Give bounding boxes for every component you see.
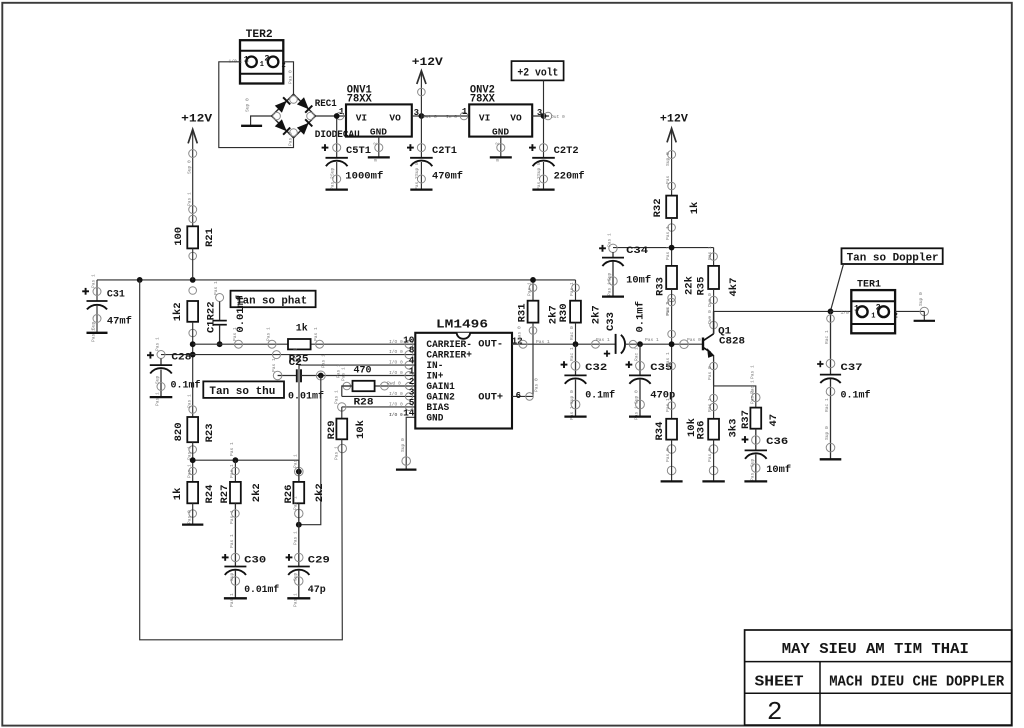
svg-text:2k7: 2k7 — [591, 305, 603, 324]
capacitor C2T2 220mf — [529, 116, 585, 190]
svg-text:+12V: +12V — [181, 114, 212, 126]
capacitor C34 10mf — [599, 233, 651, 297]
svg-text:Pas 1: Pas 1 — [527, 282, 533, 296]
regulator ONV2 78XX — [469, 84, 542, 137]
svg-text:10k: 10k — [355, 420, 367, 439]
capacitor C36 10mf — [742, 429, 792, 482]
svg-text:+2 volt: +2 volt — [517, 67, 558, 79]
svg-text:Pas 1: Pas 1 — [292, 531, 298, 545]
svg-text:2: 2 — [495, 142, 501, 145]
svg-text:470mf: 470mf — [432, 171, 463, 183]
svg-text:m: m — [496, 159, 499, 164]
resistor R36 3k3 — [686, 418, 739, 481]
svg-text:1: 1 — [260, 61, 264, 69]
svg-text:470: 470 — [354, 365, 372, 377]
capacitor C30 0.01mf — [222, 553, 279, 607]
svg-text:GAIN1: GAIN1 — [426, 382, 455, 393]
svg-text:Pas 1: Pas 1 — [229, 442, 235, 456]
svg-text:47: 47 — [768, 414, 780, 427]
svg-text:100: 100 — [173, 227, 185, 246]
svg-text:3k3: 3k3 — [727, 419, 739, 438]
svg-text:GND: GND — [426, 414, 443, 425]
svg-text:C29: C29 — [308, 555, 330, 567]
svg-text:Pas 1: Pas 1 — [634, 406, 640, 420]
wire collector to TER1 node — [707, 289, 830, 334]
svg-text:2: 2 — [409, 376, 415, 387]
svg-text:Owe 0: Owe 0 — [707, 293, 713, 307]
wire R27 to C30 — [229, 503, 239, 566]
svg-text:Sup 0: Sup 0 — [414, 162, 420, 176]
svg-text:0.1mf: 0.1mf — [634, 301, 646, 333]
svg-text:3: 3 — [409, 387, 415, 398]
svg-text:14: 14 — [403, 407, 415, 418]
title block — [745, 630, 1012, 727]
ground at LM1496 pin14 — [389, 412, 416, 470]
node R26 bottom junction — [292, 503, 301, 566]
op-amp U1 LM1496 — [415, 319, 512, 429]
capacitor C1 0.01mf — [213, 281, 248, 347]
svg-text:0.1mf: 0.1mf — [585, 390, 615, 402]
svg-text:220mf: 220mf — [554, 171, 585, 183]
resistor R25 1k — [288, 323, 311, 366]
svg-text:Sup 0: Sup 0 — [245, 98, 251, 112]
power +12V arrow (ONV1 output) — [412, 57, 443, 116]
svg-text:Pas 1: Pas 1 — [536, 339, 550, 345]
wire TER2 pin1 to bridge bottom — [219, 62, 294, 148]
resistor R33 22k — [655, 266, 696, 315]
svg-text:1: 1 — [244, 54, 249, 64]
svg-text:Pas 0: Pas 0 — [687, 337, 701, 343]
svg-text:MAY SIEU AM TIM THAI: MAY SIEU AM TIM THAI — [782, 641, 969, 658]
svg-text:Pas 1: Pas 1 — [607, 282, 613, 296]
svg-text:I/O 0: I/O 0 — [389, 391, 403, 397]
svg-text:Pas: Pas — [749, 472, 755, 481]
svg-text:Pas 1: Pas 1 — [266, 327, 272, 341]
svg-text:Pas 2: Pas 2 — [330, 176, 336, 190]
svg-text:R37: R37 — [740, 410, 752, 429]
svg-text:Pas 1: Pas 1 — [596, 337, 610, 343]
svg-text:Sup 0: Sup 0 — [186, 160, 192, 174]
node TER1 junction — [828, 309, 834, 315]
svg-text:OUT-: OUT- — [478, 339, 503, 350]
node R22/wire2 junction — [190, 352, 196, 358]
svg-text:GAIN2: GAIN2 — [426, 393, 455, 404]
ground at ONV2 GND pin — [490, 137, 512, 164]
svg-text:Pas 1: Pas 1 — [335, 364, 341, 378]
capacitor C31 47mf — [82, 274, 132, 342]
svg-text:Pas 1: Pas 1 — [229, 593, 235, 607]
transistor Q1 C828 — [703, 310, 745, 386]
capacitor C37 0.1mf — [817, 311, 870, 459]
wire R31 bottom to out+ (pin6) — [512, 323, 540, 402]
wire bridge to ONV1 VI — [316, 112, 347, 120]
power +12V arrow (R32 top) — [660, 114, 688, 196]
svg-text:2: 2 — [373, 142, 379, 145]
svg-text:OUT+: OUT+ — [478, 393, 503, 404]
svg-text:TER2: TER2 — [246, 29, 273, 41]
capacitor C28 0.1mf — [147, 337, 201, 406]
capacitor C29 47p — [286, 553, 330, 607]
svg-text:C31: C31 — [107, 289, 125, 301]
svg-text:Pas 1: Pas 1 — [707, 398, 713, 412]
svg-text:R32: R32 — [652, 198, 664, 217]
svg-text:1k2: 1k2 — [172, 302, 184, 321]
svg-text:R23: R23 — [204, 423, 216, 442]
svg-text:Pas 1: Pas 1 — [232, 327, 238, 341]
label box Tan so phat — [231, 291, 316, 308]
svg-text:Sup: Sup — [749, 458, 755, 467]
svg-text:Pas 1: Pas 1 — [91, 328, 97, 342]
svg-text:C2T2: C2T2 — [554, 145, 579, 157]
svg-text:Rac 0: Rac 0 — [569, 326, 575, 340]
svg-text:2: 2 — [264, 53, 269, 63]
svg-text:1k: 1k — [296, 323, 308, 335]
power +12V arrow (R21 top) — [181, 114, 212, 227]
svg-text:47p: 47p — [308, 584, 326, 596]
svg-text:C30: C30 — [244, 555, 266, 567]
svg-text:C5T1: C5T1 — [346, 145, 371, 157]
svg-text:Pas 1: Pas 1 — [665, 246, 671, 260]
svg-text:Owe 0: Owe 0 — [707, 310, 713, 324]
svg-text:1: 1 — [871, 312, 875, 320]
capacitor C2T1 470mf — [407, 116, 463, 190]
svg-text:I/O 0: I/O 0 — [389, 349, 403, 355]
svg-text:10: 10 — [403, 334, 415, 345]
svg-text:Pas 1: Pas 1 — [321, 354, 327, 368]
svg-text:10mf: 10mf — [626, 275, 651, 287]
svg-text:m: m — [374, 159, 377, 164]
svg-text:CARRIER+: CARRIER+ — [426, 351, 472, 362]
svg-text:REC1: REC1 — [315, 98, 337, 110]
svg-text:2: 2 — [282, 62, 286, 70]
svg-text:820: 820 — [173, 422, 185, 441]
svg-text:LM1496: LM1496 — [436, 319, 488, 332]
svg-text:R33: R33 — [655, 277, 667, 296]
svg-text:2: 2 — [876, 302, 881, 312]
svg-text:VO: VO — [510, 113, 522, 124]
svg-text:BIAS: BIAS — [426, 403, 449, 414]
svg-text:C36: C36 — [766, 436, 788, 448]
svg-text:Pas 1: Pas 1 — [749, 365, 755, 379]
svg-text:C2: C2 — [289, 357, 302, 369]
svg-text:Pas 1: Pas 1 — [569, 406, 575, 420]
svg-text:IN+: IN+ — [426, 372, 443, 383]
svg-text:GND: GND — [370, 127, 387, 138]
capacitor C5T1 1000mf — [322, 113, 384, 190]
svg-text:VI: VI — [479, 113, 490, 124]
svg-text:4k7: 4k7 — [728, 278, 740, 297]
svg-text:R34: R34 — [654, 422, 666, 441]
wire R32 to R33 with C34 tap — [613, 218, 714, 266]
svg-text:Out 0: Out 0 — [551, 114, 565, 120]
svg-text:Pas 1: Pas 1 — [292, 454, 298, 468]
svg-text:I/O 0: I/O 0 — [389, 412, 403, 418]
svg-text:C2T1: C2T1 — [432, 145, 457, 157]
node C2/IN+ junction — [316, 354, 413, 380]
svg-text:Sup 0: Sup 0 — [634, 390, 640, 404]
svg-text:Out 0: Out 0 — [423, 114, 437, 120]
wire +12V node to ONV2 VI — [421, 107, 469, 120]
resistor R37 47 — [740, 390, 780, 429]
wire carrier+ (pin8) run — [161, 349, 415, 358]
svg-text:+12V: +12V — [412, 57, 443, 69]
wire ONV2 VO to +2volt node — [532, 112, 565, 120]
svg-text:C1R22: C1R22 — [205, 301, 217, 333]
svg-text:Sup 0: Sup 0 — [665, 152, 671, 166]
svg-text:Pas 2: Pas 2 — [536, 176, 542, 190]
svg-text:Pas 1: Pas 1 — [334, 446, 340, 460]
svg-text:VO: VO — [389, 113, 401, 124]
svg-text:1: 1 — [462, 107, 468, 117]
svg-text:Pas 1: Pas 1 — [91, 274, 97, 288]
svg-text:Pas 1: Pas 1 — [334, 390, 340, 404]
svg-text:Sup 0: Sup 0 — [569, 390, 575, 404]
svg-text:6: 6 — [516, 391, 521, 401]
svg-text:Sup 0: Sup 0 — [400, 438, 406, 452]
svg-text:1: 1 — [409, 366, 415, 377]
svg-text:I/O 0: I/O 0 — [389, 370, 403, 376]
wire R33 bottom to base node — [665, 289, 675, 419]
svg-text:Pas 1: Pas 1 — [229, 464, 235, 478]
svg-text:Pas 1: Pas 1 — [229, 510, 235, 524]
svg-text:47mf: 47mf — [107, 315, 132, 327]
resistor R35 4k7 — [696, 246, 740, 297]
resistor R21 100 — [173, 215, 216, 260]
svg-text:MACH DIEU CHE DOPPLER: MACH DIEU CHE DOPPLER — [829, 674, 1004, 691]
svg-text:Pas 0: Pas 0 — [288, 70, 294, 84]
capacitor C35 470p — [626, 341, 676, 420]
svg-text:R36: R36 — [695, 421, 707, 440]
svg-text:VI: VI — [356, 113, 367, 124]
resistor R26 2k2 — [283, 460, 326, 518]
resistor R23 820 — [173, 394, 216, 460]
wire emitter to R37 — [714, 365, 760, 408]
wire IN- column to R26 — [292, 454, 303, 482]
svg-text:1k: 1k — [689, 202, 701, 215]
svg-text:R30: R30 — [558, 303, 570, 322]
svg-text:Sup 0: Sup 0 — [536, 162, 542, 176]
label +2 volt — [512, 61, 564, 116]
svg-text:GND: GND — [492, 127, 509, 138]
svg-text:Pas 1: Pas 1 — [665, 302, 671, 316]
svg-text:IN-: IN- — [426, 361, 443, 372]
wire emitter node to R36 — [707, 386, 717, 419]
svg-text:Sup: Sup — [607, 272, 613, 281]
wire ONV1 VO to +12V node — [412, 113, 457, 120]
svg-text:Pas 1: Pas 1 — [749, 390, 755, 404]
svg-text:8: 8 — [409, 345, 415, 356]
resistor R29 10k — [326, 419, 367, 460]
svg-text:Sup 0: Sup 0 — [824, 426, 830, 440]
svg-text:Pas 1: Pas 1 — [155, 392, 161, 406]
svg-text:2: 2 — [767, 697, 783, 727]
wire carrier (pin10) run — [193, 327, 416, 348]
svg-text:Pas 1: Pas 1 — [665, 226, 671, 240]
capacitor C33 0.1mf (coupling) — [596, 301, 703, 357]
ground at ONV1 GND pin — [368, 137, 390, 164]
svg-text:C28: C28 — [171, 351, 191, 363]
svg-text:Rwd 0: Rwd 0 — [387, 381, 401, 387]
svg-text:Pas 1: Pas 1 — [186, 464, 192, 478]
svg-text:0.1mf: 0.1mf — [171, 380, 201, 392]
svg-text:R21: R21 — [204, 228, 216, 247]
svg-text:Pas 2: Pas 2 — [414, 176, 420, 190]
svg-text:C32: C32 — [585, 362, 607, 374]
svg-text:2k2: 2k2 — [314, 483, 326, 502]
svg-text:I/O 0: I/O 0 — [389, 339, 403, 345]
node R22/wire1 junction — [190, 341, 196, 347]
node R30/out- junction — [573, 341, 579, 347]
svg-text:Sup: Sup — [229, 572, 235, 581]
svg-text:R24: R24 — [204, 485, 216, 504]
svg-text:R29: R29 — [326, 420, 338, 439]
svg-text:Sup: Sup — [330, 167, 336, 176]
svg-text:I/O 0: I/O 0 — [389, 402, 403, 408]
svg-text:1/0: 1/0 — [841, 310, 850, 316]
resistor R30 2k7 — [558, 280, 603, 344]
svg-text:Pas 1: Pas 1 — [313, 327, 319, 341]
svg-text:Tan so thu: Tan so thu — [209, 386, 275, 398]
svg-text:TER1: TER1 — [857, 278, 881, 290]
svg-text:Sup: Sup — [292, 572, 298, 581]
svg-text:Pas 1: Pas 1 — [292, 593, 298, 607]
resistor R34 10k — [654, 419, 683, 482]
wire R23 bottom rail — [190, 442, 299, 482]
wire TER2 pin2 to bridge top — [283, 62, 293, 146]
svg-text:Pas 1: Pas 1 — [186, 192, 192, 206]
wire IN+ node down to R26 bottom node — [299, 376, 321, 525]
terminal TER2 — [229, 29, 286, 84]
svg-text:Rac 1: Rac 1 — [634, 347, 640, 361]
svg-text:Sup: Sup — [155, 375, 161, 384]
node base junction — [669, 341, 675, 347]
svg-text:Pas 1: Pas 1 — [665, 398, 671, 412]
svg-text:Pas 0: Pas 0 — [707, 448, 713, 462]
svg-text:R31: R31 — [517, 303, 529, 322]
svg-text:2k2: 2k2 — [251, 483, 263, 502]
svg-text:Pas 1: Pas 1 — [645, 337, 659, 343]
svg-text:C33: C33 — [605, 312, 617, 331]
wire V+ rail to R21/R22 — [97, 248, 576, 282]
svg-text:Pas 1: Pas 1 — [186, 394, 192, 408]
ground at bridge left — [241, 98, 272, 126]
svg-text:SHEET: SHEET — [755, 674, 804, 691]
svg-text:Pas: Pas — [665, 175, 671, 184]
svg-text:DIODECAU: DIODECAU — [315, 129, 360, 141]
svg-text:Pas 1: Pas 1 — [213, 281, 219, 295]
resistor R22 1k2 — [172, 287, 217, 337]
svg-text:0.1mf: 0.1mf — [841, 390, 871, 402]
svg-text:4: 4 — [409, 355, 415, 366]
resistor R31 2k7 — [517, 277, 560, 324]
svg-text:Pas 0: Pas 0 — [665, 448, 671, 462]
resistor R32 1k — [652, 196, 701, 240]
svg-text:22k: 22k — [684, 276, 696, 295]
svg-text:C828: C828 — [719, 336, 745, 348]
wire in- (pin4) run — [293, 348, 416, 472]
label box Tan so Doppler — [831, 248, 943, 311]
svg-text:Tan so phat: Tan so phat — [236, 295, 307, 307]
svg-text:Pas 1: Pas 1 — [271, 358, 277, 372]
svg-text:C34: C34 — [626, 245, 648, 257]
svg-text:Pas 1: Pas 1 — [607, 233, 613, 247]
svg-text:Pas 1: Pas 1 — [229, 534, 235, 548]
svg-text:10mf: 10mf — [766, 464, 791, 476]
svg-text:Rac 1: Rac 1 — [569, 347, 575, 361]
svg-text:1: 1 — [854, 303, 859, 313]
svg-text:0.01mf: 0.01mf — [288, 390, 324, 402]
svg-text:2: 2 — [894, 313, 898, 321]
capacitor C32 0.1mf — [561, 344, 616, 420]
svg-text:Pas 1: Pas 1 — [292, 496, 298, 510]
svg-text:0.01mf: 0.01mf — [244, 584, 279, 596]
bridge rectifier REC1 — [272, 94, 360, 141]
ground at TER1 right — [895, 292, 935, 321]
svg-text:5: 5 — [409, 397, 415, 408]
svg-text:Pas 1: Pas 1 — [155, 337, 161, 351]
svg-text:R35: R35 — [696, 277, 708, 296]
resistor R24 1k — [172, 464, 216, 525]
svg-text:C37: C37 — [841, 362, 863, 374]
wire R28 left to gain2 (pin3) — [335, 364, 415, 400]
svg-text:Pas 1: Pas 1 — [569, 282, 575, 296]
svg-text:Pas 0: Pas 0 — [534, 378, 540, 392]
svg-text:CARRIER-: CARRIER- — [426, 340, 472, 351]
svg-text:Pas 1: Pas 1 — [707, 246, 713, 260]
terminal TER1 — [831, 278, 898, 333]
svg-text:Pas 0: Pas 0 — [707, 366, 713, 380]
wire gain1 (pin2) run — [341, 367, 416, 390]
svg-text:Tan so Doppler: Tan so Doppler — [847, 252, 939, 264]
capacitor C2 0.01mf — [271, 357, 415, 402]
svg-text:I/O 0: I/O 0 — [389, 360, 403, 366]
svg-text:In 0: In 0 — [446, 114, 457, 120]
svg-text:R27: R27 — [219, 485, 231, 504]
svg-text:Pas 1: Pas 1 — [341, 367, 347, 381]
svg-text:1k: 1k — [172, 488, 184, 501]
wire feedback loop R29 to V+ rail — [140, 280, 343, 640]
svg-text:Sup 0: Sup 0 — [918, 292, 924, 306]
resistor R28 470 — [353, 365, 375, 409]
resistor R27 2k2 — [219, 460, 263, 503]
svg-text:1000mf: 1000mf — [345, 171, 383, 183]
svg-text:Pas 0: Pas 0 — [186, 510, 192, 524]
svg-text:Pas 0: Pas 0 — [517, 326, 523, 340]
label box Tan so thu — [203, 381, 284, 398]
wire bias (pin5) to R29 — [334, 390, 416, 419]
svg-text:+12V: +12V — [660, 114, 688, 126]
regulator ONV1 78XX — [339, 84, 419, 137]
svg-text:Rac 1: Rac 1 — [824, 330, 830, 344]
wire R22 bottom to R23 top — [192, 322, 194, 417]
LM1496 pin numbers — [403, 334, 415, 418]
svg-text:Rac 1: Rac 1 — [824, 398, 830, 412]
wire out- (pin12) run — [512, 326, 616, 348]
